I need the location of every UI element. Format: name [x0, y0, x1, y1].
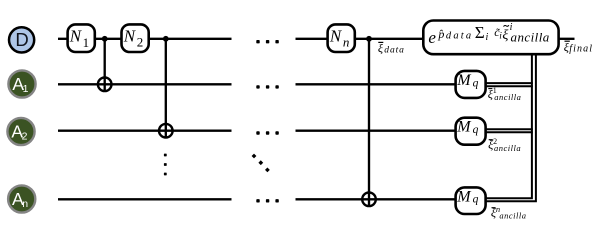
svg-text:i: i — [486, 32, 489, 43]
ellipsis A2 row — [256, 131, 279, 134]
wire An row segment 2 — [296, 198, 457, 200]
svg-text:q: q — [473, 77, 479, 89]
svg-text:ancilla: ancilla — [494, 92, 521, 102]
ellipsis An row — [256, 199, 279, 202]
wire D row segment 4 — [296, 38, 329, 40]
measurement Mq on A2 — [456, 118, 486, 145]
unitary box exp — [423, 21, 558, 55]
wire CNOT1 vertical — [104, 39, 106, 91]
wire A1 row segment 1 — [58, 83, 232, 85]
ellipsis D row — [256, 40, 279, 43]
node label xin_ancilla — [491, 204, 527, 221]
diagonal dots between A2 and An — [252, 154, 270, 173]
svg-text:M: M — [456, 188, 472, 205]
svg-text:data: data — [446, 30, 473, 41]
svg-text:1: 1 — [83, 35, 90, 50]
svg-text:final: final — [569, 44, 593, 55]
svg-text:M: M — [456, 119, 472, 136]
control dot CNOT3 — [366, 36, 372, 42]
svg-text:2: 2 — [137, 35, 144, 50]
classical double wire vertical outer — [486, 55, 536, 201]
svg-text:N: N — [69, 27, 83, 46]
wire CNOT2 vertical — [165, 39, 167, 138]
gate Nn — [328, 24, 355, 52]
svg-text:data: data — [384, 46, 405, 56]
svg-text:ancilla: ancilla — [494, 143, 521, 153]
measurement Mq on An — [456, 187, 486, 214]
svg-text:ancilla: ancilla — [511, 30, 550, 45]
qubit label A1 — [8, 70, 35, 97]
wire A2 row segment 2 — [296, 130, 457, 132]
svg-text:Σ: Σ — [475, 23, 485, 42]
control dot CNOT1 — [102, 36, 108, 42]
svg-text:N: N — [123, 27, 137, 46]
node label xi_final — [564, 40, 593, 55]
node label xi1_ancilla — [488, 86, 522, 102]
svg-text:n: n — [343, 35, 350, 50]
qubit label D — [9, 27, 34, 52]
CNOT target on A2 — [159, 124, 173, 138]
svg-text:q: q — [473, 194, 479, 206]
gate N1 — [68, 24, 95, 52]
node label xi2_ancilla — [488, 137, 521, 153]
CNOT target on An — [362, 193, 376, 207]
wire D row segment 3 — [148, 38, 232, 40]
wire An row segment 1 — [58, 198, 232, 200]
svg-text:n: n — [22, 198, 28, 210]
svg-text:D: D — [15, 29, 28, 50]
ellipsis A1 row — [256, 85, 279, 88]
classical double wire Mq A1 — [486, 83, 533, 86]
wire D row segment 5 — [354, 38, 424, 40]
wire D row segment 2 — [94, 38, 123, 40]
svg-text:2: 2 — [22, 131, 28, 143]
svg-text:N: N — [329, 27, 343, 46]
qubit label An — [8, 185, 35, 212]
svg-text:q: q — [473, 124, 479, 136]
svg-text:ξ: ξ — [502, 28, 508, 43]
svg-text:ξ: ξ — [378, 41, 384, 55]
measurement Mq on A1 — [456, 71, 486, 98]
svg-text:ancilla: ancilla — [499, 211, 526, 221]
control dot CNOT2 — [163, 36, 169, 42]
wire D row segment 1 — [58, 38, 67, 40]
wire D row output stub — [559, 38, 575, 40]
node label xi_data — [378, 41, 405, 56]
qubit label A2 — [7, 118, 34, 145]
gate N2 — [122, 24, 149, 52]
CNOT target on A1 — [98, 78, 112, 92]
svg-text:M: M — [456, 72, 472, 89]
svg-text:e: e — [428, 28, 436, 47]
vertical dots between A2 and An — [164, 154, 167, 176]
svg-text:p̂: p̂ — [437, 27, 444, 41]
wire CNOT3 vertical — [368, 39, 370, 206]
wire A1 row segment 2 — [296, 83, 456, 85]
svg-text:1: 1 — [23, 83, 29, 95]
classical double wire vertical inner — [486, 55, 532, 198]
wire A2 row segment 1 — [58, 130, 232, 132]
classical double wire Mq A2 — [486, 129, 533, 132]
